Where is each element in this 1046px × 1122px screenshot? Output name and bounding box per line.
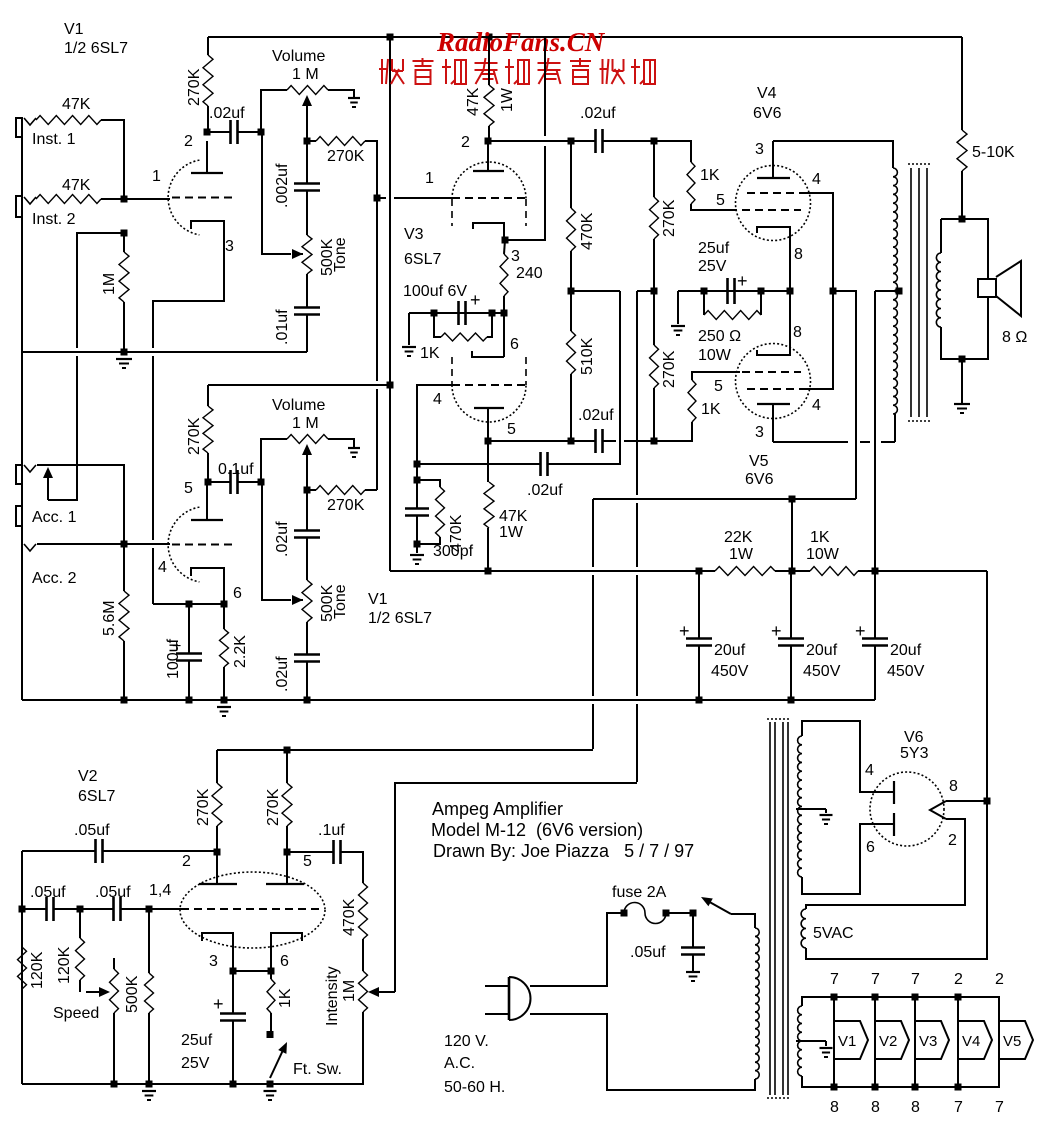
ground speaker	[954, 404, 970, 413]
capacitor C18 .05uf	[47, 897, 54, 921]
wire cath net	[409, 312, 504, 314]
label Tone	[332, 237, 349, 272]
junction heater top V3	[912, 994, 919, 1001]
input jack J4 Acc.2	[16, 506, 36, 551]
svg-text:+: +	[737, 271, 748, 291]
label R2 47K	[62, 177, 91, 194]
svg-text:5.6M: 5.6M	[101, 600, 118, 636]
svg-text:1K: 1K	[700, 167, 720, 184]
node div top	[568, 138, 575, 145]
node V2b plate	[284, 849, 291, 856]
triode V3a plate	[473, 141, 504, 171]
label pin8 V6	[949, 778, 958, 795]
wire B+ drop x390	[389, 37, 391, 571]
label R27 120K	[29, 951, 46, 989]
capacitor C11 20uf 450V	[778, 639, 804, 646]
label pin 2	[184, 133, 193, 150]
label 22K	[724, 529, 753, 546]
wire c18 right	[54, 908, 80, 910]
label heater V5	[1003, 1033, 1021, 1050]
resistor R21 5.6M	[119, 591, 129, 641]
wire 270K V4 bot	[653, 239, 655, 291]
triode V3b plate	[474, 408, 504, 441]
wire switch to primary	[731, 914, 755, 928]
watermark RadioFans.CN	[436, 27, 606, 57]
svg-text:V3: V3	[919, 1033, 937, 1050]
svg-text:4: 4	[433, 391, 442, 408]
svg-text:3: 3	[511, 248, 520, 265]
label pin6 V1b	[233, 585, 242, 602]
svg-text:Inst. 1: Inst. 1	[32, 131, 76, 148]
label R9 1W	[499, 524, 524, 541]
input jack J2 Inst.2	[16, 196, 36, 217]
svg-text:Tone: Tone	[332, 237, 349, 272]
junction C10 gnd	[696, 697, 703, 704]
svg-text:6SL7: 6SL7	[404, 251, 441, 268]
jack switch arrow (Acc.1)	[43, 467, 53, 500]
wire gnd drop cathnet	[408, 313, 410, 345]
wire intensity riser b	[636, 503, 638, 567]
capacitor C6 .02uf upper	[596, 429, 603, 453]
label C18 .05uf	[30, 884, 66, 901]
input jack J1 Inst.1	[16, 118, 36, 137]
transformer T1 core	[908, 164, 930, 421]
capacitor C8 .02uf V4	[596, 129, 603, 153]
triode V3a grid dashed	[452, 197, 526, 199]
label + C16	[172, 638, 181, 655]
svg-text:22K: 22K	[724, 529, 753, 546]
junction VR5 gnd	[111, 1081, 118, 1088]
svg-text:V3: V3	[404, 226, 424, 243]
svg-text:.002uf: .002uf	[274, 163, 291, 208]
label + C9	[737, 271, 748, 291]
wire div mid2	[570, 291, 572, 331]
svg-text:450V: 450V	[803, 663, 841, 680]
svg-text:.02uf: .02uf	[274, 656, 291, 692]
wire R29 top	[148, 909, 150, 973]
wire V1a cathode down	[153, 240, 224, 348]
label fuse 2A	[612, 884, 667, 901]
potentiometer VR6 Intensity 1M	[359, 971, 368, 1012]
svg-text:Acc. 1: Acc. 1	[32, 509, 77, 526]
label Volume	[272, 48, 325, 65]
label heater bottom pin V4	[954, 1099, 963, 1116]
ground main rail	[217, 707, 231, 716]
potentiometer VR3 Volume 1M ch2	[287, 435, 328, 444]
wire wiper-cap	[306, 141, 308, 184]
node spk top	[959, 216, 966, 223]
wire tremolo B+ drop c	[592, 704, 594, 749]
node V2b k	[268, 968, 275, 975]
svg-text:7: 7	[830, 971, 839, 988]
label C13 0.1uf	[218, 461, 254, 478]
label 1,4	[149, 882, 171, 899]
svg-text:20uf: 20uf	[890, 642, 922, 659]
ground heater CT	[820, 1048, 833, 1057]
pentode V5 grid dashed	[742, 371, 801, 373]
label C14 .02uf	[274, 521, 291, 557]
label + C11	[771, 621, 782, 641]
wire fbnode	[416, 464, 418, 480]
wire 470K-pot	[362, 939, 364, 971]
junction heater top V1	[831, 994, 838, 1001]
label R24 2.2K	[232, 635, 249, 668]
wire 270K ch2 bot	[207, 453, 209, 482]
label heater top pin V1	[830, 971, 839, 988]
label C5 300pf	[433, 543, 474, 560]
label 5Y3	[900, 745, 929, 762]
label R3 1M	[101, 273, 118, 295]
resistor R25 270K trem1	[212, 783, 222, 826]
svg-text:Volume: Volume	[272, 397, 325, 414]
wire mains live	[530, 913, 624, 986]
label C17 .05uf	[74, 822, 110, 839]
resistor R3 1M grid leak	[119, 252, 129, 302]
capacitor C2 .002uf	[294, 184, 320, 191]
wire grid entry V2	[149, 908, 181, 910]
wire C12 bot	[874, 646, 876, 701]
svg-text:1K: 1K	[810, 529, 830, 546]
wire div top	[570, 141, 572, 208]
label R12 510K	[579, 337, 596, 375]
svg-text:1K: 1K	[420, 345, 440, 362]
svg-text:25uf: 25uf	[698, 240, 730, 257]
wire C12 top	[874, 571, 876, 639]
junction heater top V2	[872, 994, 879, 1001]
resistor R28 120K	[76, 938, 85, 980]
wire 470K loop bot	[417, 537, 440, 544]
svg-text:5: 5	[714, 378, 723, 395]
svg-text:4: 4	[812, 397, 821, 414]
label + C10	[679, 621, 690, 641]
wire screen drop	[791, 499, 793, 571]
junction ground rail ch1	[121, 349, 128, 356]
label R22 270K	[186, 417, 203, 455]
label R7 240	[516, 265, 543, 282]
label pin5 V1b	[184, 480, 193, 497]
pentode V5 cathode	[757, 291, 790, 355]
label 25V	[698, 258, 727, 275]
rectifier V6 envelope	[870, 772, 944, 846]
wire main ground rail	[22, 699, 875, 701]
potentiometer VR4 Tone 500K ch2	[302, 580, 312, 622]
wire pin2 to 5VAC	[806, 819, 965, 909]
label 120 V.	[444, 1033, 489, 1050]
svg-text:+: +	[679, 621, 690, 641]
svg-text:1M: 1M	[101, 273, 118, 295]
junction heater top V4	[955, 994, 962, 1001]
node cath net right	[489, 310, 496, 317]
wire cath bus	[678, 290, 790, 292]
triode V1a envelope	[168, 160, 199, 235]
svg-text:5: 5	[716, 192, 725, 209]
label 5VAC	[813, 925, 854, 942]
label pin5 V4	[716, 192, 725, 209]
svg-text:5Y3: 5Y3	[900, 745, 929, 762]
wire R29 bottom	[148, 1013, 150, 1084]
wire to volume2	[261, 439, 287, 482]
junction ch2 B+	[387, 382, 394, 389]
node V3a cathode	[502, 237, 509, 244]
wire 270K tone to mix bus	[365, 141, 377, 198]
wire 1K V4 top	[654, 141, 691, 162]
label pin3 V5	[755, 424, 764, 441]
label R18 5-10K	[972, 144, 1015, 161]
label heater bottom pin V2	[871, 1099, 880, 1116]
wire 270K ch2 top	[207, 385, 209, 406]
wire c18 left	[22, 908, 46, 910]
potentiometer VR5 Speed 500K	[110, 969, 119, 1013]
triode V1a plate	[191, 141, 223, 173]
wire 2.2K bot	[223, 667, 225, 700]
label C20 25uf	[181, 1032, 213, 1049]
wire fb top right	[103, 850, 217, 852]
svg-text:1W: 1W	[499, 524, 524, 541]
svg-text:5-10K: 5-10K	[972, 144, 1015, 161]
wire jack sleeve vertical	[21, 117, 23, 700]
svg-text:.02uf: .02uf	[578, 407, 614, 424]
label R5 270K	[327, 148, 365, 165]
wire 47K-B+ rail	[487, 528, 489, 571]
svg-text:4: 4	[812, 171, 821, 188]
ground ch1 rail	[116, 359, 132, 368]
ground V2 rail	[142, 1091, 156, 1100]
svg-text:1 M: 1 M	[292, 415, 319, 432]
label pin6 V6	[866, 839, 875, 856]
node V3a plate	[485, 138, 492, 145]
node cath net left	[431, 310, 438, 317]
V6 plate 2	[893, 813, 895, 836]
label pin4 V1b	[158, 559, 167, 576]
label Volume ch2	[272, 397, 325, 414]
svg-text:8 Ω: 8 Ω	[1002, 329, 1027, 346]
node C1 out	[258, 129, 265, 136]
pot VR4 wiper ch2	[292, 595, 303, 605]
wire rail 1K join	[792, 570, 810, 572]
wire V3b plate to C6	[488, 440, 595, 442]
node cathodes	[787, 288, 794, 295]
label pin8 V4	[794, 246, 803, 263]
pentode V5 screen dashed	[747, 388, 806, 390]
svg-text:47K: 47K	[499, 508, 528, 525]
label V4	[757, 85, 777, 102]
label R6 1W	[499, 87, 516, 112]
wire Acc.1 contact lower	[48, 356, 77, 500]
label + C12	[855, 621, 866, 641]
label heater top pin V5	[995, 971, 1004, 988]
wire speaker loop	[941, 219, 988, 359]
label R15 270K	[661, 350, 678, 388]
wire 250 right	[760, 291, 762, 315]
svg-text:8: 8	[830, 1099, 839, 1116]
label C15 .02uf	[274, 656, 291, 692]
label Ft. Sw.	[293, 1061, 342, 1078]
wire C20 bot	[232, 1021, 234, 1085]
wire tremolo B+ drop b	[592, 575, 594, 696]
wire 47K1W top	[488, 37, 490, 85]
resistor R18 5-10K feedback	[957, 130, 967, 171]
transformer T1 primary	[893, 168, 897, 414]
svg-text:6: 6	[866, 839, 875, 856]
wire 270K V4 top	[653, 141, 655, 197]
svg-text:20uf: 20uf	[806, 642, 838, 659]
pot VR5 top stub	[113, 958, 115, 969]
label 1K 10W	[810, 529, 830, 546]
transformer T2 6V winding	[798, 1006, 802, 1076]
capacitor C3 .01uf	[294, 308, 320, 315]
wire 47K1W to plate node	[488, 126, 490, 141]
label C11 450V	[803, 663, 841, 680]
resistor R17 250ohm	[704, 311, 761, 320]
wire 1K V5 out	[692, 372, 740, 380]
heater tag V5	[999, 997, 1033, 1087]
resistor R2 47K (Inst.2)	[36, 195, 101, 204]
svg-text:V6: V6	[904, 729, 924, 746]
svg-text:.01uf: .01uf	[274, 309, 291, 345]
svg-text:+: +	[771, 621, 782, 641]
pot VR1 wiper	[302, 95, 312, 141]
resistor R19 22K 1W	[715, 567, 775, 576]
junction heater bottom V4	[955, 1084, 962, 1091]
svg-text:20uf: 20uf	[714, 642, 746, 659]
wire Acc to V1b grid	[124, 543, 170, 545]
node 300pf bottom	[414, 541, 421, 548]
wire C10 top	[698, 571, 700, 639]
svg-text:3: 3	[755, 424, 764, 441]
label V5	[749, 453, 769, 470]
svg-text:V5: V5	[1003, 1033, 1021, 1050]
node fb3	[77, 906, 84, 913]
label R28 120K	[56, 946, 73, 984]
label + C20	[213, 994, 224, 1014]
label 10W	[698, 347, 732, 364]
triode V3a cathode	[473, 223, 504, 240]
junction 47K1W top	[486, 34, 493, 41]
ground HV CT	[820, 815, 833, 824]
label pin4 V4	[812, 171, 821, 188]
transformer T1 secondary	[936, 253, 941, 327]
wire R25 bot	[216, 826, 218, 852]
svg-text:8: 8	[793, 324, 802, 341]
wire div mid1	[570, 251, 572, 291]
label R25 270K	[195, 788, 212, 826]
svg-text:120 V.: 120 V.	[444, 1033, 489, 1050]
svg-text:+: +	[213, 994, 224, 1014]
pentode V4 screen dashed	[747, 192, 806, 194]
wire C1 to vol node	[238, 131, 261, 133]
pot VR5 wiper Speed	[86, 987, 110, 997]
wire screens to rail	[833, 291, 856, 499]
wire plate-47K	[487, 441, 489, 482]
svg-text:V1: V1	[838, 1033, 856, 1050]
wire mix bus to V3a grid b	[394, 197, 452, 199]
node div mid	[568, 288, 575, 295]
resistor R27 120K	[18, 947, 27, 989]
wire B+ top rail	[208, 36, 962, 38]
wire tone wiper ch2	[262, 482, 291, 600]
label Speed	[53, 1005, 99, 1022]
svg-text:10W: 10W	[698, 347, 732, 364]
label heater V2	[879, 1033, 897, 1050]
pot VR2 wiper	[292, 249, 303, 259]
label pin3 V2	[209, 953, 218, 970]
wire 270K V5 bot	[653, 388, 655, 441]
node V2a k	[230, 968, 237, 975]
node C13 out	[258, 479, 265, 486]
svg-text:5: 5	[184, 480, 193, 497]
wire C6 to V5 grid node	[603, 440, 616, 442]
junction 2.2K gnd	[221, 697, 228, 704]
svg-text:1K: 1K	[277, 988, 294, 1008]
svg-text:3: 3	[755, 141, 764, 158]
junction heater bottom V1	[831, 1084, 838, 1091]
wire tone-.01uf	[306, 274, 308, 308]
svg-text:1M: 1M	[341, 980, 358, 1002]
wire to gnd 300pf	[416, 544, 418, 553]
resistor R11 470K div	[567, 208, 576, 251]
node V4 grid RC	[651, 138, 658, 145]
label Tone ch2	[332, 584, 349, 619]
svg-text:Ampeg Amplifier: Ampeg Amplifier	[432, 799, 563, 819]
transformer T2 primary	[755, 928, 759, 1079]
wire 270K tone2 to mix	[365, 489, 377, 491]
label C6 .02uf	[578, 407, 614, 424]
svg-text:1/2 6SL7: 1/2 6SL7	[368, 610, 432, 627]
svg-text:.02uf: .02uf	[527, 482, 563, 499]
wire rail 22K join	[699, 570, 715, 572]
label V2	[78, 768, 98, 785]
wire 270K tone left	[307, 140, 316, 142]
pentode V4 grid dashed	[742, 209, 801, 211]
resistor R7 240	[500, 254, 508, 296]
label C8 .02uf	[580, 105, 616, 122]
label R4 270K	[186, 68, 203, 106]
wire C16 top	[188, 604, 190, 654]
triode V3b envelope	[452, 357, 526, 422]
wire cath gnd drop	[677, 291, 679, 324]
svg-text:7: 7	[911, 971, 920, 988]
wire plate2 to C21	[287, 851, 333, 853]
triode V3b grid dashed	[452, 384, 526, 386]
label V6	[904, 729, 924, 746]
wire ch1 ground rail	[22, 351, 307, 353]
svg-text:.02uf: .02uf	[580, 105, 616, 122]
node 470K top	[414, 477, 421, 484]
wire div to C8	[571, 140, 595, 142]
resistor R30 1K V2 cathode	[267, 979, 275, 1013]
label A.C.	[444, 1055, 475, 1072]
label 25uf	[698, 240, 730, 257]
junction sw gnd	[267, 1081, 274, 1088]
label C19 .05uf	[95, 884, 131, 901]
svg-text:.05uf: .05uf	[630, 944, 666, 961]
svg-text:1/2 6SL7: 1/2 6SL7	[64, 40, 128, 57]
wire R30 to sw	[270, 1013, 272, 1031]
wire .01uf-rail	[306, 315, 308, 353]
wire 1K V5 bottom	[654, 422, 692, 441]
node wiper ch1	[304, 138, 311, 145]
label R16 1K	[701, 401, 721, 418]
resistor R9 47K 1W plate V3b	[484, 482, 494, 528]
svg-text:7: 7	[995, 1099, 1004, 1116]
label pin 2 V3a	[461, 134, 470, 151]
label R10 470K	[448, 514, 465, 552]
wire B+ rail	[390, 570, 699, 572]
svg-text:25V: 25V	[698, 258, 727, 275]
junction B+ node3	[872, 568, 879, 575]
node div bottom	[568, 438, 575, 445]
capacitor C7 .02uf lower	[541, 452, 548, 476]
